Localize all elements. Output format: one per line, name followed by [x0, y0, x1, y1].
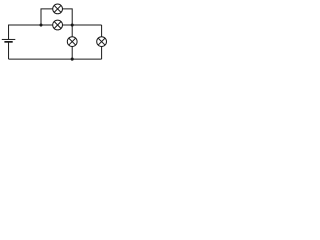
wire: top branch from lamp L1 down to node B: [63, 9, 73, 25]
wire: node B down to lamp L3: [71, 25, 73, 37]
battery B1 long plate (positive): [2, 38, 16, 40]
lamp L4: [97, 37, 107, 47]
wire: middle rail from lamp L2 to right corner: [63, 24, 102, 26]
bottom junction dot: [71, 58, 74, 61]
lamp L1: [53, 4, 63, 14]
wire: battery bottom to bottom rail: [8, 42, 10, 59]
lamp L3: [67, 37, 77, 47]
wire: bottom rail: [9, 58, 102, 60]
wire: lamp L4 down to bottom rail: [101, 47, 103, 60]
lamp L2: [53, 20, 63, 30]
node B junction dot: [71, 23, 74, 26]
node A junction dot: [39, 23, 42, 26]
wire: node A vertical up to top branch: [41, 9, 53, 25]
wire: battery top to middle rail: [9, 25, 53, 39]
wire: right corner down to lamp L4: [101, 25, 103, 37]
wire: lamp L3 down to bottom rail: [71, 47, 73, 60]
battery B1 short plate (negative): [4, 41, 12, 43]
